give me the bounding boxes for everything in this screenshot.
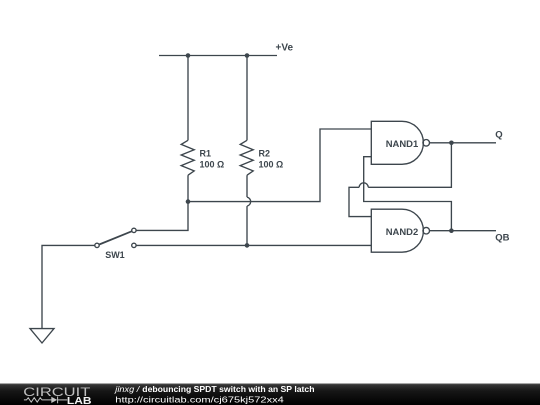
svg-text:+Ve: +Ve [276,43,294,54]
svg-text:R2: R2 [259,148,271,158]
svg-text:100 Ω: 100 Ω [200,159,225,169]
svg-text:LAB: LAB [67,396,92,405]
svg-text:NAND2: NAND2 [386,227,419,237]
svg-text:debouncing SPDT switch with an: debouncing SPDT switch with an SP latch [142,385,314,394]
svg-text:SW1: SW1 [105,250,125,260]
svg-text:NAND1: NAND1 [386,139,419,149]
svg-text:jinxg /: jinxg / [114,385,140,394]
svg-text:R1: R1 [200,148,212,158]
svg-text:Q: Q [495,129,502,140]
svg-text:http://circuitlab.com/cj675kj5: http://circuitlab.com/cj675kj572xx4 [115,394,284,404]
svg-text:100 Ω: 100 Ω [259,159,284,169]
svg-text:QB: QB [495,232,509,243]
